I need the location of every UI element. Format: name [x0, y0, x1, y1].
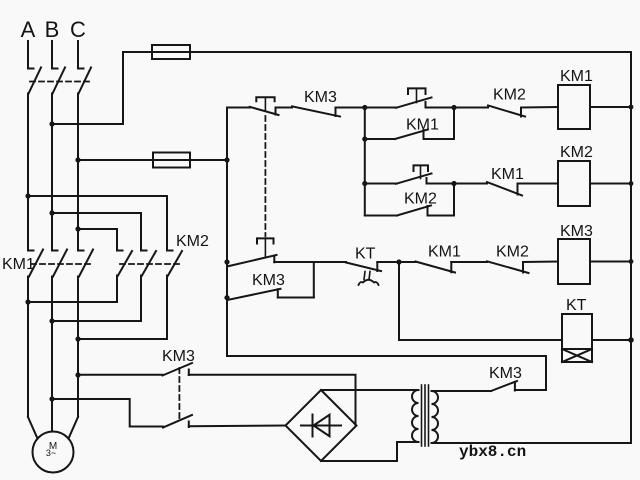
wire KM3 top to bridge right vertex	[189, 375, 356, 426]
node join B	[49, 318, 54, 323]
contactor KM3 NC tick row1	[335, 108, 337, 117]
node coil KM1 bus	[629, 105, 634, 110]
wire loop1 left vertical	[364, 108, 366, 140]
wire control bus	[226, 108, 228, 357]
wire phase A lead-in	[27, 41, 29, 69]
wire loop1 bottom left	[365, 138, 395, 140]
wire motor lead left diagonal	[28, 417, 38, 439]
start button SB2 tick	[425, 102, 427, 108]
wire join C-P3	[78, 338, 167, 340]
svg-text:A: A	[21, 17, 36, 42]
bridge rectifier diamond	[286, 390, 357, 461]
contactor KM1 pole 2 blade	[53, 250, 67, 277]
switch QS link dashed	[30, 81, 92, 83]
wire bridge bottom to transformer primary bottom	[321, 442, 419, 461]
wire row2 node to SB3	[365, 183, 397, 185]
fuse FU1	[152, 45, 190, 59]
wire phase C column	[77, 94, 79, 251]
wire motor lead right diagonal	[69, 417, 79, 439]
contactor KM2 pole 1 foot	[117, 250, 123, 252]
relay coil KT box	[562, 314, 592, 349]
start button SB2 blade NO	[396, 98, 432, 108]
svg-text:KM1: KM1	[491, 166, 524, 183]
contact KM1 selfhold blade NO	[395, 130, 428, 140]
svg-text:C: C	[70, 17, 86, 42]
start button SB3 stem	[420, 166, 422, 179]
wire row1 start	[227, 107, 250, 109]
stop button second tick	[273, 256, 275, 262]
contact KM3 selfhold blade NO	[228, 289, 281, 300]
relay contact KT delay strokes	[364, 272, 365, 280]
wire KT coil branch vertical	[399, 262, 562, 340]
svg-text:KM1: KM1	[2, 256, 35, 273]
wire loop1 bottom right	[424, 108, 455, 140]
node tap C	[75, 226, 80, 231]
wire KM3 primary contact to control bus long wire	[227, 356, 546, 390]
node row1 right loop	[451, 105, 456, 110]
wire phase C lead-in	[77, 41, 79, 69]
stop button SB1 tick	[275, 108, 277, 115]
wire tap B to KM2 pole2	[52, 213, 141, 251]
wire phase B column	[51, 94, 53, 251]
wire fuse1 tap from B	[52, 52, 123, 124]
switch QS pole 2 blade	[53, 68, 66, 94]
svg-text:KM2: KM2	[404, 191, 437, 208]
coil KM1	[558, 85, 590, 129]
wire row2 to coil KM2	[518, 183, 559, 185]
contact KM2 selfhold blade NO	[397, 206, 431, 216]
node fuse2 tap on C	[75, 157, 80, 162]
node tap B	[49, 210, 54, 215]
svg-text:KM3: KM3	[252, 272, 285, 289]
contactor KM3 braking top blade	[163, 363, 193, 376]
node join A	[25, 299, 30, 304]
switch QS pole 2 foot	[52, 68, 58, 70]
diode triangle	[314, 415, 330, 436]
start button SB2 stem	[416, 89, 418, 103]
wire row3 to coil KM3	[523, 261, 558, 264]
wire KM3 bottom to bridge left vertex	[189, 425, 286, 428]
diode line	[301, 425, 341, 427]
wire row3 KT to KM1	[377, 261, 415, 263]
svg-text:ybx8.cn: ybx8.cn	[459, 443, 526, 461]
stop button SB1 blade NC	[250, 107, 279, 115]
switch QS pole 1 blade	[29, 68, 42, 94]
svg-text:KM3: KM3	[560, 223, 593, 240]
contactor KM3 braking top tick	[188, 370, 190, 376]
contactor KM1 pole 3 foot	[78, 250, 84, 252]
switch QS pole 1 foot	[28, 68, 34, 70]
wire DC minus from B tap	[52, 399, 163, 427]
wire KM2 pole outputs down	[116, 276, 118, 303]
node coil KM2 bus	[629, 181, 634, 186]
contact KM1 row3 blade	[416, 262, 456, 273]
contactor KM3 braking bottom blade	[163, 415, 192, 428]
svg-text:KT: KT	[566, 297, 587, 314]
node row2 right loop	[451, 181, 456, 186]
wire top bus	[123, 51, 631, 53]
wire loop2 bottom right	[428, 184, 455, 216]
svg-text:KM3: KM3	[489, 365, 522, 382]
wire bridge top to transformer primary	[321, 389, 419, 391]
contactor KM1 pole 2 foot	[52, 250, 58, 252]
switch QS pole 3 foot	[78, 68, 84, 70]
wire row1 KM3 to node	[336, 107, 398, 109]
node row3 bus top	[224, 259, 229, 264]
contact KM2 NC row1 tick	[520, 108, 522, 117]
wire coil KM2 to right bus	[590, 183, 631, 185]
contact KM1 row3 tick	[450, 262, 452, 272]
contact KM3 selfhold tick	[277, 289, 279, 297]
node join C	[75, 336, 80, 341]
contact KM2 row3 blade	[487, 261, 529, 273]
wire fuse2 feed from C	[78, 159, 227, 161]
wire row3 to KT	[314, 261, 346, 263]
node DC tap on B lead	[49, 396, 54, 401]
wire row2 SB3 to KM1NC	[427, 183, 488, 185]
node DC tap on C lead	[75, 372, 80, 377]
wire loop column row1 to row2	[364, 139, 366, 184]
wire secondary top to KM3 contact	[432, 390, 492, 392]
node row2 left loop	[362, 181, 367, 186]
diode cathode bar	[312, 415, 314, 437]
stop button SB1 stem	[264, 98, 266, 112]
node row1 left loop	[362, 105, 367, 110]
wire KM1 pole outputs down	[27, 277, 29, 418]
start button SB2 T-bar	[408, 88, 426, 94]
wire row1 SB1 to KM3	[276, 107, 293, 109]
svg-text:KM2: KM2	[176, 233, 209, 250]
svg-text:KM2: KM2	[496, 244, 529, 261]
start button SB3 blade NO	[396, 174, 432, 184]
node row3 KT branch	[396, 259, 401, 264]
wire tap C to KM2 pole1	[78, 229, 117, 251]
transformer secondary winding	[432, 391, 439, 443]
contact KM2 row3 tick	[522, 262, 524, 273]
wire row1 SB2 to KM2NC	[426, 107, 489, 109]
svg-text:KM3: KM3	[162, 348, 195, 365]
stop button SB1 T-bar	[256, 97, 274, 101]
svg-text:KM1: KM1	[560, 68, 593, 85]
stop button second T-bar	[257, 238, 274, 243]
node fuse1 tap on B	[49, 121, 54, 126]
contactor KM2 pole 1 blade	[118, 251, 132, 276]
stop button link dashed	[264, 116, 266, 236]
relay contact KT delay dome	[359, 280, 379, 285]
transformer core	[421, 385, 423, 446]
switch QS pole 3 blade	[79, 68, 92, 94]
svg-text:KM1: KM1	[428, 244, 461, 261]
wire phase A column	[27, 94, 29, 251]
relay contact KT tick	[376, 262, 378, 271]
contactor KM1 pole 1 blade	[29, 250, 43, 277]
node row3 bus bottom	[224, 295, 229, 300]
node coil KM3 bus	[629, 259, 634, 264]
contactor KM3 braking bottom tick	[188, 422, 190, 428]
wire row3 to corner	[274, 262, 314, 298]
contact KM2 selfhold tick	[427, 206, 429, 216]
contactor KM3 NC blade row1	[292, 106, 340, 116]
motor M circle	[33, 432, 74, 473]
fuse FU2	[153, 153, 190, 168]
stop button second blade NO	[229, 255, 277, 266]
contactor KM2 pole 3 foot	[167, 250, 173, 252]
contactor KM2 pole 3 blade	[168, 251, 182, 276]
contact KM1 NC row2 blade	[487, 182, 522, 196]
svg-text:KM2: KM2	[493, 87, 526, 104]
contactor KM1 pole 1 foot	[28, 250, 34, 252]
relay coil KT delay box	[562, 349, 592, 362]
wire join B-P2	[52, 320, 141, 322]
contactor KM1 link dashed	[31, 263, 92, 265]
wire right bus	[630, 52, 632, 443]
svg-text:KT: KT	[355, 246, 376, 263]
wire coil KM3 to right bus	[590, 261, 631, 263]
node coil KT bus	[628, 337, 634, 343]
wire KM3 selfhold to corner	[278, 297, 314, 299]
contactor KM3 primary-side tick	[514, 382, 516, 391]
wire bottom bus	[432, 442, 632, 444]
wire DC plus from C tap	[78, 374, 163, 376]
svg-text:KM2: KM2	[560, 144, 593, 161]
svg-text:B: B	[45, 17, 60, 42]
coil KM3	[558, 239, 590, 284]
relay coil KT delay cross	[562, 349, 592, 362]
coil KM2	[558, 161, 590, 206]
svg-text:KM3: KM3	[304, 89, 337, 106]
transformer primary winding	[412, 390, 418, 442]
node tap A	[25, 193, 30, 198]
node loop1 bottom	[362, 136, 367, 141]
contact KM2 NC row1 blade	[488, 106, 525, 117]
contactor KM1 pole 3 blade	[79, 250, 93, 277]
wire phase B lead-in	[51, 41, 53, 69]
contactor KM3 braking link dashed	[178, 368, 180, 420]
wire loop2 left vertical	[364, 184, 366, 216]
wire tap A to KM2 pole3	[28, 196, 167, 251]
contactor KM2 pole 2 blade	[142, 251, 156, 276]
wire join A-P1	[28, 301, 117, 303]
contactor KM2 link dashed	[120, 263, 181, 265]
wire loop2 bottom left	[365, 215, 397, 217]
wire row1 to coil KM1	[521, 106, 558, 109]
contact KM1 selfhold tick	[423, 130, 425, 139]
relay contact KT blade	[346, 263, 381, 272]
contactor KM3 primary-side blade	[491, 381, 517, 391]
wire coil KT to right bus	[592, 339, 631, 341]
node fuse2 to control bus	[224, 157, 229, 162]
svg-text:3~: 3~	[46, 448, 56, 458]
stop button second stem	[264, 238, 266, 258]
start button SB3 T-bar	[414, 165, 429, 171]
start button SB3 tick	[426, 178, 428, 184]
wire coil KM1 to right bus	[590, 106, 631, 108]
contact KM1 NC row2 tick	[517, 184, 519, 195]
wire row3 KM1 to KM2	[451, 261, 487, 263]
contactor KM2 pole 2 foot	[141, 250, 147, 252]
